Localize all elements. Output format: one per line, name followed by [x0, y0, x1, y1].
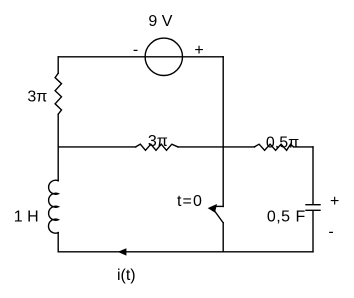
switch S1 lower wire — [222, 223, 224, 252]
current arrow i(t) on bottom wire — [118, 248, 127, 255]
svg-text:9 V: 9 V — [148, 13, 172, 30]
svg-text:-: - — [133, 41, 138, 58]
wire middle horizontal left segment — [58, 146, 136, 148]
voltage source V1 circle — [145, 38, 182, 75]
svg-text:1 H: 1 H — [14, 209, 39, 226]
wire middle to right corner — [294, 146, 314, 148]
switch S1 arrowhead — [208, 204, 217, 213]
resistor R1 3pi (left vertical zigzag) — [55, 73, 61, 114]
resistor R2 3pi (middle horizontal zigzag) — [136, 144, 178, 150]
svg-text:3π: 3π — [27, 88, 47, 105]
svg-text:+: + — [330, 193, 339, 210]
wire left vertical upper — [57, 57, 59, 73]
svg-text:t=0: t=0 — [177, 193, 203, 210]
capacitor C1 top plate — [306, 204, 320, 206]
capacitor C1 bottom plate — [306, 209, 320, 211]
switch S1 upper contact stub — [214, 205, 223, 207]
switch S1 blade — [214, 211, 223, 223]
wire bottom horizontal — [58, 251, 313, 253]
wire below capacitor — [312, 211, 314, 252]
svg-text:0,5 F: 0,5 F — [267, 208, 306, 225]
svg-text:+: + — [194, 42, 203, 59]
svg-text:-: - — [328, 223, 333, 240]
inductor L1 1H (four left-facing loops) — [48, 180, 58, 233]
wire top horizontal — [58, 56, 223, 58]
svg-text:0,5π: 0,5π — [266, 135, 299, 152]
wire middle horizontal right segment — [178, 146, 255, 148]
svg-text:3π: 3π — [148, 133, 168, 150]
wire right vertical to capacitor — [312, 147, 314, 204]
svg-text:i(t): i(t) — [117, 267, 136, 284]
wire source right vertical (to switch upper contact) — [222, 57, 224, 207]
wire left vertical lower — [57, 233, 59, 252]
wire left vertical middle — [57, 114, 59, 181]
resistor R3 0,5pi (right horizontal zigzag) — [254, 144, 293, 150]
